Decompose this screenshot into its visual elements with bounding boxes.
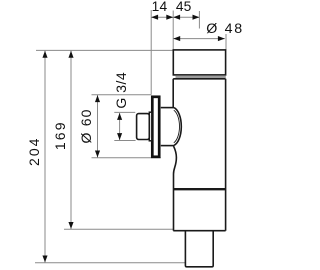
bulge bottom line (161, 145, 174, 147)
body bottom edge (173, 230, 225, 232)
top extension line dia60 (92, 94, 152, 96)
outlet pipe (185, 231, 213, 267)
extension line right of dim 48 (225, 34, 227, 50)
valve main body upper edge (173, 78, 225, 80)
arrow 204 top (42, 51, 47, 58)
dimension line 169 (70, 50, 72, 229)
S-curve below bulge (174, 146, 177, 231)
bulge inner curve (174, 110, 180, 143)
svg-text:169: 169 (52, 120, 68, 150)
valve body left edge upper (172, 79, 174, 108)
bulge top line (161, 107, 174, 109)
dimension line 14 / 45 (151, 16, 199, 18)
svg-text:G 3/4: G 3/4 (113, 72, 129, 109)
arrow dim14 right (166, 15, 173, 20)
extension line right of dim 45 (198, 11, 200, 29)
arrow dim14 left (151, 15, 158, 20)
arrow dia60 bottom (95, 151, 100, 158)
svg-text:204: 204 (26, 137, 42, 166)
arrow dim48 right (218, 36, 225, 41)
svg-text:14: 14 (152, 0, 168, 14)
push button body (137, 114, 150, 140)
arrow G3/4 top (117, 113, 122, 120)
arrow G3/4 bottom (117, 133, 122, 140)
arrow dim45 right (193, 15, 200, 20)
valve body right edge (225, 79, 227, 231)
valve top cap cylinder (173, 50, 225, 75)
svg-text:Ø 48: Ø 48 (206, 21, 244, 37)
dimension line G3/4 (119, 113, 121, 140)
svg-text:Ø 60: Ø 60 (78, 108, 94, 143)
groove line (176, 76, 226, 78)
arrow dim45 left (173, 15, 180, 20)
push button lip (149, 112, 152, 141)
arrow 204 bottom (42, 256, 47, 263)
bottom extension line 204 (35, 262, 185, 264)
extension line between dim 14 and 45 (172, 11, 174, 51)
arrow 169 top (68, 51, 73, 58)
dimension line diameter 60 (97, 95, 99, 158)
dimension line 204 (44, 50, 46, 262)
bottom extension line 169 (64, 228, 173, 230)
extension line left of dim 14 (150, 10, 152, 95)
bottom extension line G3/4 (114, 140, 135, 142)
svg-text:45: 45 (176, 0, 192, 14)
top extension line for 204/169 (36, 49, 173, 51)
dimension line diameter 48 (173, 38, 225, 40)
arrow dim48 left (173, 36, 180, 41)
top extension line G3/4 (114, 111, 135, 113)
bulge outer curve (174, 108, 181, 146)
arrow dia60 top (95, 95, 100, 102)
wall rosette (152, 97, 159, 157)
body joint line (173, 188, 225, 190)
bottom extension line dia60 (92, 157, 161, 159)
arrow 169 bottom (68, 222, 73, 229)
